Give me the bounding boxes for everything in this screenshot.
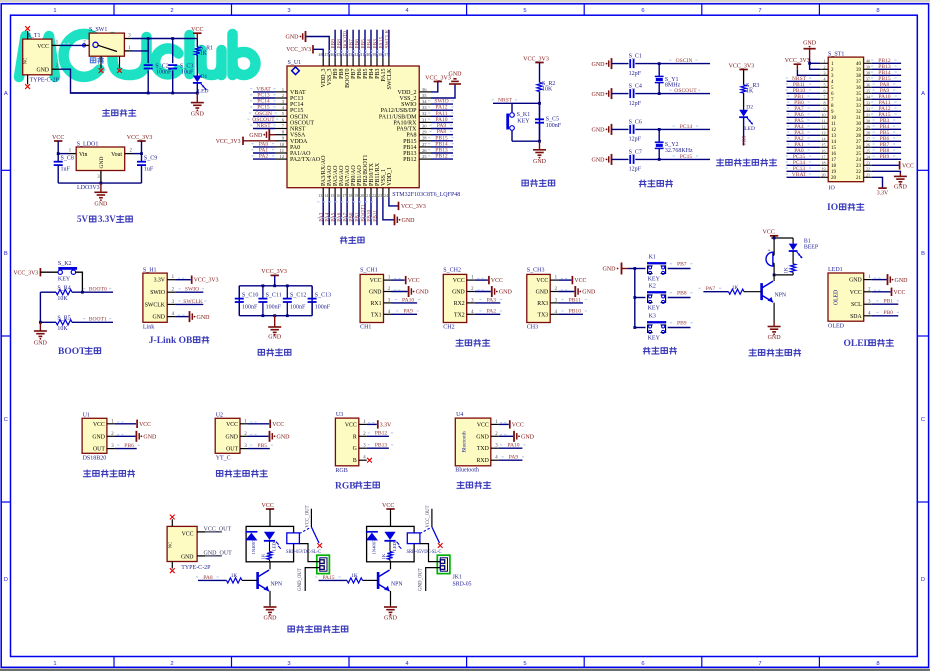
svg-text:11: 11 [280, 148, 285, 153]
svg-text:VCC: VCC [191, 27, 203, 33]
U1 right pin names and stubs [379, 87, 431, 163]
svg-text:VCC: VCC [894, 290, 906, 296]
svg-text:OSCIN: OSCIN [676, 58, 693, 64]
svg-text:1K: 1K [746, 89, 754, 95]
svg-text:OLED: OLED [828, 324, 845, 330]
connector ST1 IO port body [820, 51, 871, 191]
svg-text:GND: GND [449, 72, 463, 78]
svg-text:OSCIN: OSCIN [290, 114, 309, 120]
svg-text:PB13: PB13 [435, 148, 448, 154]
wire key gnd bus [633, 267, 636, 329]
svg-text:SWCLK: SWCLK [183, 299, 203, 305]
power port VCC CH2 [475, 276, 503, 284]
svg-text:S_R5: S_R5 [57, 315, 70, 321]
title zhuxinpian [340, 237, 364, 244]
wire RX3 net PB11 [558, 297, 587, 303]
key K2 boot switch [58, 261, 83, 292]
alarm bottom rail [773, 274, 793, 280]
wire TX1 net PA9 [392, 309, 419, 315]
svg-text:38: 38 [378, 52, 382, 57]
svg-text:20: 20 [360, 193, 364, 198]
filter rails [239, 284, 312, 317]
svg-text:36: 36 [866, 83, 870, 88]
svg-text:VCC: VCC [139, 422, 151, 428]
svg-text:KEY: KEY [648, 336, 661, 342]
ST1 right net labels [871, 58, 901, 160]
svg-text:PA0: PA0 [259, 141, 269, 147]
svg-text:3.3V: 3.3V [98, 214, 116, 224]
svg-text:GND: GND [197, 315, 211, 321]
svg-text:GND: GND [268, 334, 282, 340]
power port VCC CH3 [558, 276, 586, 284]
svg-text:PA12: PA12 [435, 105, 447, 111]
svg-text:VCC: VCC [491, 278, 503, 284]
svg-text:GND_OUT: GND_OUT [204, 550, 233, 556]
svg-text:VCC: VCC [408, 278, 420, 284]
svg-text:100nF: 100nF [242, 304, 258, 310]
svg-text:B: B [4, 251, 8, 257]
svg-text:A: A [921, 91, 925, 97]
net PB8 key K2 [670, 291, 693, 297]
wire relay coil bottom to transistor [390, 562, 392, 570]
svg-text:TX2: TX2 [454, 312, 465, 318]
svg-text:35: 35 [422, 93, 427, 98]
svg-text:GND_OUT: GND_OUT [418, 568, 423, 591]
svg-text:34: 34 [422, 99, 427, 104]
LED D1 [193, 55, 209, 95]
svg-text:Bluetooth: Bluetooth [455, 468, 479, 474]
svg-text:33: 33 [856, 104, 862, 109]
svg-text:GND: GND [536, 290, 549, 296]
relay output connector [317, 555, 330, 573]
ground VSSA pin8 [249, 129, 275, 140]
wire vertical C2 [147, 51, 149, 93]
svg-text:PB14: PB14 [403, 145, 416, 151]
title alarm [749, 349, 801, 356]
svg-text:SCL: SCL [851, 302, 862, 308]
svg-text:OLED: OLED [834, 290, 840, 305]
ground boot [34, 322, 48, 346]
svg-text:OUT: OUT [226, 447, 238, 453]
svg-text:27: 27 [866, 137, 870, 142]
svg-text:GND: GND [592, 92, 606, 98]
svg-text:VCC: VCC [902, 163, 914, 169]
wire OUT net PB5 [248, 443, 273, 449]
svg-text:S_C12: S_C12 [290, 293, 306, 299]
capacitor C4 and OSCOUT row [592, 84, 711, 107]
ground U2 [248, 431, 290, 442]
LED relay indicator [264, 532, 281, 551]
U1 left net stubs PA0-PA2 [252, 141, 276, 159]
svg-text:VCC_3V3: VCC_3V3 [729, 63, 755, 69]
svg-text:34: 34 [856, 98, 862, 103]
svg-text:VCC_OUT: VCC_OUT [204, 526, 232, 532]
svg-text:1K: 1K [732, 285, 739, 291]
transistor NPN relay [258, 570, 283, 606]
svg-text:25: 25 [422, 154, 427, 159]
svg-text:16: 16 [336, 193, 340, 198]
svg-text:17: 17 [831, 158, 837, 163]
title dianyuan dianlu [102, 109, 135, 116]
svg-text:GND: GND [384, 615, 398, 621]
wire T1 GND to bottom rail [52, 64, 148, 93]
svg-text:KEY: KEY [648, 277, 661, 283]
svg-text:32: 32 [856, 110, 862, 115]
ground jlink [175, 311, 210, 322]
svg-text:PB15: PB15 [403, 139, 416, 145]
title J-Link OB [149, 336, 209, 346]
relay part number [286, 549, 321, 555]
ground reset [533, 141, 547, 165]
LDO ground pin and bottom rail [58, 171, 141, 185]
svg-text:18: 18 [822, 161, 826, 166]
svg-text:S_C4: S_C4 [629, 84, 642, 90]
svg-text:5V: 5V [77, 214, 89, 224]
svg-text:23: 23 [378, 193, 382, 198]
svg-text:27: 27 [856, 140, 862, 145]
svg-text:GND: GND [99, 157, 105, 169]
svg-text:PA2/TX/AO: PA2/TX/AO [290, 157, 321, 163]
svg-text:VCC: VCC [272, 422, 284, 428]
svg-text:OSCIN: OSCIN [255, 111, 272, 117]
svg-text:RX2: RX2 [454, 301, 465, 307]
wire TX2 net PA2 [475, 309, 502, 315]
svg-text:TXD: TXD [477, 446, 489, 452]
svg-text:36: 36 [856, 86, 862, 91]
connector CH3 serial [527, 268, 558, 331]
svg-text:KEY: KEY [648, 306, 661, 312]
svg-text:VCC: VCC [370, 278, 382, 284]
svg-text:DS18B20: DS18B20 [83, 456, 107, 462]
svg-text:BOOT: BOOT [58, 347, 86, 357]
ground ST1 pin22 [872, 171, 908, 190]
svg-text:VCC: VCC [52, 135, 64, 141]
crystal Y1 8MHz [655, 62, 681, 95]
svg-text:26: 26 [856, 146, 862, 151]
title lvbo dianlu [258, 349, 291, 356]
svg-text:VCC_3V3: VCC_3V3 [425, 75, 451, 81]
svg-text:41: 41 [360, 52, 364, 57]
power port VCC_3V3 filter [261, 269, 287, 286]
power port VCC relay [382, 503, 395, 527]
svg-text:S_H1: S_H1 [143, 268, 157, 274]
svg-text:31: 31 [856, 116, 862, 121]
svg-text:PB6: PB6 [124, 443, 134, 449]
ground relay [264, 606, 278, 622]
capacitor C8 1uF [54, 156, 74, 184]
svg-text:OUT: OUT [93, 447, 105, 453]
svg-text:PA10: PA10 [507, 443, 519, 449]
svg-text:38: 38 [866, 71, 870, 76]
key K1 [635, 255, 691, 283]
svg-text:BOOT0: BOOT0 [89, 286, 107, 292]
U1 top pin names and stubs [318, 52, 392, 90]
svg-text:100nF: 100nF [290, 304, 306, 310]
svg-text:PA10: PA10 [402, 297, 414, 303]
svg-text:28: 28 [422, 136, 427, 141]
svg-text:VCC: VCC [477, 422, 489, 428]
svg-text:PA8: PA8 [437, 129, 447, 135]
switch SW1 [82, 27, 132, 73]
svg-text:GND: GND [592, 158, 606, 164]
svg-text:S_U1: S_U1 [288, 60, 302, 66]
svg-text:29: 29 [422, 130, 427, 135]
svg-text:9: 9 [824, 107, 826, 112]
svg-text:7: 7 [758, 8, 761, 14]
MCUclub logo text [19, 34, 256, 77]
svg-text:GND: GND [582, 290, 596, 296]
power port 3.3V U3 [367, 420, 392, 428]
svg-text:PC13: PC13 [290, 96, 303, 102]
svg-text:U1: U1 [83, 412, 90, 418]
svg-text:VCC: VCC [453, 278, 465, 284]
capacitor C1 and OSCIN row [592, 54, 711, 77]
svg-text:VCC_OUT: VCC_OUT [426, 505, 431, 527]
svg-text:VCC: VCC [850, 290, 862, 296]
svg-text:17: 17 [822, 155, 826, 160]
svg-text:PB5: PB5 [257, 443, 267, 449]
svg-text:Vout: Vout [111, 152, 122, 158]
svg-text:OSCOUT: OSCOUT [252, 117, 275, 123]
regulator LDO1 LDO3V3 [76, 142, 125, 191]
svg-text:17: 17 [342, 193, 346, 198]
svg-text:NC: NC [168, 542, 173, 548]
svg-text:12: 12 [822, 125, 826, 130]
capacitor C7 and PC15 row [592, 149, 711, 172]
wire T1 VCC to switch [52, 40, 86, 45]
title chuankou dianlu [456, 339, 490, 346]
svg-text:PB13: PB13 [403, 151, 416, 157]
svg-text:10K: 10K [57, 296, 68, 302]
relay coil [407, 533, 420, 544]
svg-text:OSCOUT: OSCOUT [674, 88, 697, 94]
module U4 Bluetooth [455, 412, 499, 473]
svg-text:20: 20 [822, 173, 826, 178]
module U2 YT_C [215, 412, 248, 461]
svg-text:GND: GND [264, 615, 278, 621]
svg-text:100nF: 100nF [315, 304, 331, 310]
svg-text:30: 30 [856, 122, 862, 127]
ground VSS_2 pin35 [431, 72, 462, 99]
svg-text:19: 19 [831, 170, 837, 175]
wire NRST node [492, 92, 541, 142]
svg-text:S_K2: S_K2 [58, 261, 72, 267]
svg-text:21: 21 [366, 193, 370, 198]
title IO expansion [827, 203, 864, 213]
relay output wires [418, 544, 440, 591]
svg-text:32: 32 [866, 107, 870, 112]
svg-text:1K: 1K [200, 51, 208, 57]
svg-text:5: 5 [523, 8, 526, 14]
svg-text:3: 3 [824, 71, 826, 76]
svg-text:48: 48 [318, 52, 322, 57]
svg-text:6: 6 [641, 8, 644, 14]
svg-text:GND: GND [416, 290, 430, 296]
svg-text:5: 5 [523, 661, 526, 667]
svg-text:10: 10 [279, 142, 284, 147]
power port VCC_3V3 reset [523, 56, 549, 82]
svg-text:42: 42 [354, 52, 358, 57]
svg-text:33: 33 [866, 101, 870, 106]
wire RX1 net PA10 [392, 297, 421, 303]
key K3 [635, 314, 691, 342]
svg-text:16: 16 [822, 149, 826, 154]
svg-text:NRST: NRST [498, 98, 513, 104]
svg-text:VCC_3V3: VCC_3V3 [523, 56, 549, 62]
ground U1 [115, 431, 157, 442]
svg-text:SWIO: SWIO [185, 287, 199, 293]
svg-text:VCC: VCC [574, 278, 586, 284]
U1 top net wires [329, 30, 390, 58]
svg-text:PC15: PC15 [680, 154, 693, 160]
connector T2 TYPE-C-2P output [167, 515, 211, 574]
svg-text:PB11: PB11 [372, 210, 378, 222]
svg-text:PB1: PB1 [883, 299, 893, 305]
ground keys [603, 263, 635, 275]
svg-text:SWIO: SWIO [401, 102, 417, 108]
svg-text:18: 18 [831, 164, 837, 169]
svg-text:R: R [353, 434, 357, 440]
svg-text:S_C13: S_C13 [315, 293, 331, 299]
svg-text:1K: 1K [784, 267, 790, 274]
svg-text:S_C8: S_C8 [61, 156, 74, 162]
svg-text:PB5: PB5 [742, 135, 748, 145]
svg-text:19: 19 [822, 167, 826, 172]
title liquid module [217, 470, 268, 477]
svg-text:SWCLK: SWCLK [145, 302, 166, 308]
svg-text:1K: 1K [231, 573, 238, 579]
ground relay [384, 606, 398, 622]
svg-text:1N4007: 1N4007 [251, 539, 256, 555]
wire OUT net PB6 [115, 443, 140, 449]
capacitor C11 100nF filter [258, 286, 281, 316]
svg-text:PA9: PA9 [509, 455, 519, 461]
svg-text:VBAT: VBAT [290, 90, 306, 96]
title BOOT circuit [58, 347, 101, 357]
svg-text:PB12: PB12 [375, 431, 388, 437]
power port VCC [191, 27, 203, 39]
resistor 1K alarm [784, 264, 796, 275]
svg-text:21: 21 [856, 176, 862, 181]
svg-text:PC13: PC13 [257, 93, 270, 99]
capacitor C12 100nF filter [283, 286, 307, 316]
svg-text:U4: U4 [456, 412, 463, 418]
svg-text:31: 31 [866, 113, 870, 118]
svg-text:CH1: CH1 [360, 325, 371, 331]
svg-text:S_SW1: S_SW1 [89, 27, 107, 33]
svg-text:PB9: PB9 [677, 321, 687, 327]
svg-text:1: 1 [53, 661, 56, 667]
capacitor C13 100nF filter [308, 286, 332, 316]
svg-text:2: 2 [170, 661, 173, 667]
svg-text:S_C6: S_C6 [629, 119, 642, 125]
power port VCC ST1 pin23 [872, 161, 914, 169]
svg-text:S_CH2: S_CH2 [443, 268, 461, 274]
ground ldo [94, 183, 108, 207]
resistor R4 10K BOOT0 [40, 285, 113, 302]
svg-text:GND: GND [402, 218, 416, 224]
crystal Y2 32.768KHz [655, 128, 693, 161]
svg-text:GND: GND [894, 184, 908, 190]
U1 bottom pin names and stubs [318, 155, 393, 198]
svg-text:1K: 1K [381, 553, 386, 559]
svg-text:VCC: VCC [262, 503, 274, 509]
title program run indicator [716, 159, 776, 166]
title 5V to 3.3V [77, 214, 132, 224]
resistor 1K relay [381, 542, 393, 562]
svg-text:D1: D1 [201, 74, 208, 80]
ST1 left net labels [786, 76, 821, 178]
relay body box [246, 526, 294, 561]
wire SWIO jlink [175, 287, 204, 293]
relay switch contact [420, 505, 443, 548]
svg-text:11: 11 [822, 119, 826, 124]
svg-text:36: 36 [422, 87, 427, 92]
svg-text:PA1: PA1 [259, 148, 269, 154]
svg-text:12pF: 12pF [629, 101, 642, 107]
title relay control [288, 625, 348, 632]
svg-text:PA2: PA2 [259, 154, 269, 160]
title jingzhen dianlu [639, 180, 672, 187]
svg-text:S_T1: S_T1 [28, 33, 41, 39]
svg-text:45: 45 [336, 52, 340, 57]
svg-text:25: 25 [866, 149, 870, 154]
connector LED1 OLED display [828, 267, 872, 329]
svg-text:VSSA: VSSA [290, 133, 306, 139]
connector CH2 serial [443, 268, 474, 331]
svg-text:43: 43 [348, 52, 352, 57]
bottom rail power circuit [71, 83, 199, 94]
connector JK1 labels [453, 575, 472, 588]
svg-text:PA9/TX: PA9/TX [397, 127, 417, 133]
module U1 DS18B20 [82, 412, 115, 461]
relay part number [407, 549, 442, 555]
svg-text:100nF: 100nF [546, 123, 562, 129]
svg-text:3.3V: 3.3V [380, 422, 392, 428]
svg-text:GND: GND [849, 278, 862, 284]
svg-text:PB10: PB10 [569, 309, 582, 315]
svg-text:S_C7: S_C7 [629, 149, 642, 155]
net PA7 and base resistor 1K [699, 285, 762, 294]
svg-text:SWCLK: SWCLK [387, 68, 393, 90]
capacitor C3 10uF [168, 63, 194, 75]
svg-text:LED: LED [392, 541, 397, 551]
svg-text:SWCLK: SWCLK [384, 30, 390, 49]
svg-text:24: 24 [866, 155, 870, 160]
svg-text:S_ST1: S_ST1 [828, 51, 844, 57]
svg-text:GND: GND [249, 133, 263, 139]
svg-text:3: 3 [287, 8, 290, 14]
svg-text:VCC: VCC [182, 532, 194, 538]
svg-text:RXD: RXD [477, 458, 489, 464]
key K2 [635, 284, 691, 312]
connector T1 TYPE-C-2P [23, 26, 60, 89]
svg-text:SWIO: SWIO [150, 290, 165, 296]
svg-text:39: 39 [856, 68, 862, 73]
wire TX3 net PB10 [558, 309, 587, 315]
svg-text:Vin: Vin [79, 152, 87, 158]
svg-text:BEEP: BEEP [804, 244, 818, 250]
svg-text:TYPE-C-2P: TYPE-C-2P [30, 78, 60, 84]
wire TXD net PA10 [499, 443, 526, 449]
U1 left pin names and stubs [275, 87, 321, 163]
svg-text:3.3V: 3.3V [154, 278, 166, 284]
wire relay coil bottom to transistor [269, 562, 271, 570]
svg-text:GND_OUT: GND_OUT [298, 568, 303, 591]
svg-text:31: 31 [422, 117, 427, 122]
svg-text:SRD-05VDC-SL-C: SRD-05VDC-SL-C [407, 549, 442, 555]
ground filter [268, 316, 282, 341]
